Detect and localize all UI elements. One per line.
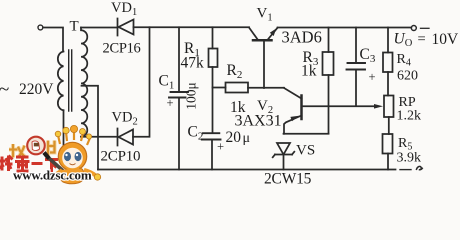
transformer T primary winding (58, 52, 64, 111)
resistor R2 (213, 83, 285, 93)
svg-text:100μ: 100μ (184, 82, 199, 110)
wire top rail right (278, 27, 412, 29)
svg-text:10V: 10V (432, 31, 460, 48)
svg-text:620: 620 (397, 69, 418, 84)
svg-text:=: = (418, 32, 426, 48)
wire top rail left (81, 27, 118, 29)
wire VD2 cathode riser (133, 27, 150, 137)
watermark red text weikuyixia (0, 156, 58, 173)
svg-text:T: T (70, 19, 79, 35)
zener diode VS (273, 143, 295, 170)
bottom rail dashed end (400, 169, 411, 171)
svg-text:2CW15: 2CW15 (264, 171, 312, 187)
svg-text:47k: 47k (181, 55, 205, 72)
svg-text:2CP16: 2CP16 (103, 41, 141, 57)
watermark red circle logo (27, 137, 45, 155)
wire V2 emitter to R3 bottom (284, 133, 329, 135)
svg-text:μ: μ (243, 131, 251, 146)
output polarity dash (421, 27, 430, 29)
svg-text:+: + (167, 96, 174, 110)
potentiometer RP (384, 96, 394, 135)
svg-text:+: + (217, 140, 224, 154)
wire VD2 anode (81, 136, 118, 138)
transistor V2 (284, 88, 383, 134)
svg-text:www.dzsc.com: www.dzsc.com (13, 168, 92, 183)
capacitor C3 (347, 28, 366, 106)
watermark mascot (50, 125, 101, 183)
svg-text:1k: 1k (301, 63, 317, 80)
svg-text:~: ~ (0, 79, 9, 100)
wire secondary center tap (82, 86, 99, 170)
svg-text:2CP10: 2CP10 (101, 149, 141, 165)
wire top rail middle (134, 26, 250, 28)
wire primary bottom lead (63, 110, 65, 152)
transistor V1 (249, 28, 278, 89)
svg-text:3AX31: 3AX31 (235, 113, 282, 130)
resistor R4 (383, 28, 393, 96)
svg-text:+: + (369, 70, 376, 84)
diode VD2 (118, 129, 134, 146)
transformer T secondary winding (81, 28, 87, 137)
transformer core (69, 50, 72, 111)
output terminal circle (411, 26, 416, 31)
resistor R5 (383, 134, 393, 170)
diode VD1 (118, 19, 134, 36)
watermark gold char zhao (9, 144, 26, 158)
bottom rail (98, 169, 396, 171)
svg-text:3.9k: 3.9k (397, 151, 422, 166)
svg-text:O: O (405, 38, 413, 49)
watermark brush (44, 153, 66, 174)
resistor R3 (323, 28, 334, 134)
wire from terminal to primary top (43, 28, 63, 52)
svg-text:3AD6: 3AD6 (282, 28, 322, 47)
capacitor C2 (202, 133, 221, 169)
watermark gold char pian (48, 141, 56, 159)
svg-text:VS: VS (296, 143, 315, 159)
AC input terminal (top-left) (38, 25, 43, 30)
svg-text:20: 20 (226, 129, 242, 146)
capacitor C1 (169, 27, 188, 169)
resistor R1 (209, 27, 218, 133)
svg-text:220V: 220V (19, 81, 54, 98)
svg-text:1.2k: 1.2k (397, 109, 422, 124)
